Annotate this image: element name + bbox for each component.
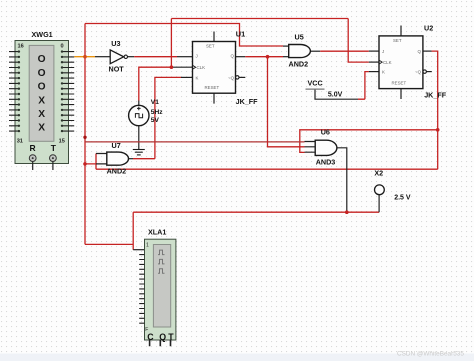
node: junction XWG1 output at bus <box>83 55 87 59</box>
logic analyzer XLA1 <box>145 227 176 346</box>
svg-text:2.5 V: 2.5 V <box>394 195 411 202</box>
logic analyzer XLA1 left pins <box>139 255 144 324</box>
wire: U5 top input stub <box>283 45 289 47</box>
svg-text:16: 16 <box>18 44 24 50</box>
svg-text:R: R <box>30 143 36 153</box>
wire: U1 Q to U5 input 2 <box>236 56 289 58</box>
wire: U2 Q down right side <box>423 51 438 169</box>
svg-text:~Q: ~Q <box>228 75 235 80</box>
wire: XWG1 pin0 to U3 input orange segment <box>74 56 95 58</box>
svg-text:31: 31 <box>17 138 23 144</box>
wire: V1 minus down to ground <box>138 125 140 150</box>
wire: bus to U6 input 1 <box>85 141 305 143</box>
svg-text:U7: U7 <box>112 141 121 150</box>
svg-text:JK_FF: JK_FF <box>424 90 447 99</box>
svg-text:5Hz: 5Hz <box>151 109 163 116</box>
AND gate U5 <box>289 33 311 69</box>
svg-text:5V: 5V <box>151 117 160 124</box>
svg-text:SET: SET <box>393 38 402 43</box>
svg-text:~Q: ~Q <box>415 70 422 75</box>
svg-text:K: K <box>196 75 199 80</box>
wire: U6 output down to probe line <box>337 148 347 212</box>
NOT gate U3 <box>109 39 128 74</box>
svg-text:XLA1: XLA1 <box>148 227 166 236</box>
svg-text:T: T <box>51 143 57 153</box>
wire: U3 output to U1 J <box>128 56 193 58</box>
svg-text:CLK: CLK <box>383 60 392 65</box>
svg-text:X2: X2 <box>374 169 383 178</box>
word generator XWG1 right pins <box>63 52 75 132</box>
node: junction bus to U7 inputs <box>83 162 87 166</box>
wire: U2 Q to U6 input 3 line <box>300 130 438 153</box>
svg-text:X: X <box>38 123 45 134</box>
svg-text:XWG1: XWG1 <box>32 30 53 39</box>
svg-text:NOT: NOT <box>109 65 125 74</box>
wire: bus to U7 inputs <box>85 154 107 170</box>
svg-text:U6: U6 <box>321 128 330 137</box>
svg-text:JK_FF: JK_FF <box>236 97 259 106</box>
svg-text:J: J <box>382 49 384 54</box>
svg-text:Q: Q <box>231 53 235 58</box>
svg-text:15: 15 <box>59 138 65 144</box>
node: junction U6 output at probe line <box>345 210 349 214</box>
word generator XWG1 left pins <box>9 52 19 132</box>
svg-text:5.0V: 5.0V <box>328 91 343 98</box>
svg-text:K: K <box>382 70 385 75</box>
node: junction U2 Q line <box>436 128 440 132</box>
node: junction U1 Q <box>266 55 270 59</box>
svg-text:SET: SET <box>206 43 215 48</box>
wire: bus bottom to XLA1 riser <box>85 212 133 250</box>
svg-text:VCC: VCC <box>308 78 323 87</box>
word generator XWG1 <box>15 30 69 170</box>
wire: vertical from clock tie down to U2 CLK <box>348 19 369 63</box>
svg-text:AND2: AND2 <box>107 167 127 176</box>
svg-text:J: J <box>196 53 198 58</box>
svg-text:C: C <box>147 332 154 342</box>
wire: U7 output up to U1 K <box>155 77 193 158</box>
VCC power symbol <box>306 78 343 98</box>
wire: vertical from clock tie down to U1 CLK <box>170 19 172 68</box>
wire: U5 output to U2 J <box>310 50 379 52</box>
wire: top clock tie line (U1 CLK to U2 CLK) <box>171 18 348 20</box>
svg-text:AND2: AND2 <box>289 59 309 68</box>
svg-text:X: X <box>38 95 45 106</box>
svg-text:Q: Q <box>418 49 422 54</box>
svg-text:O: O <box>38 82 46 93</box>
AND gate U7 <box>107 141 129 175</box>
wire: XLA1 pin 1 stub <box>133 249 144 251</box>
clock voltage source V1 <box>129 99 164 126</box>
svg-text:U2: U2 <box>424 24 433 33</box>
AND gate U6 (3-input) <box>305 128 337 167</box>
wire: XWG1 output vertical bus <box>84 24 86 245</box>
probe X2 <box>374 169 410 202</box>
node: junction on bus (stray dot) <box>83 136 86 139</box>
wire: long feedback line from U2 Q net <box>96 168 438 170</box>
svg-text:1: 1 <box>146 242 149 248</box>
wire: U1 Q down to U6 input 2 <box>268 57 305 147</box>
svg-text:X: X <box>38 109 45 120</box>
ground <box>133 150 145 155</box>
wire: VCC to U2 K <box>315 72 379 100</box>
svg-text:CSDN @WhiteBear535: CSDN @WhiteBear535 <box>397 351 464 358</box>
svg-text:O: O <box>38 68 46 79</box>
svg-text:AND3: AND3 <box>316 157 336 166</box>
wire: probe output line <box>133 211 379 213</box>
wire: U7 output segment <box>129 158 155 160</box>
svg-text:U1: U1 <box>236 30 245 39</box>
JK flip-flop U1 <box>193 30 259 106</box>
wire: X2 probe stub <box>378 195 380 213</box>
node: junction at U1 CLK <box>170 65 174 69</box>
wire: V1 plus to U1 CLK <box>139 67 193 105</box>
svg-text:V1: V1 <box>151 99 159 106</box>
svg-text:U3: U3 <box>111 39 120 48</box>
wire: U2 CLK stub <box>369 61 379 63</box>
svg-text:0: 0 <box>61 44 64 50</box>
svg-text:RESET: RESET <box>392 80 407 85</box>
svg-text:O: O <box>38 54 46 65</box>
wire: XWG1 pin0 to U3 input black segment <box>95 56 110 58</box>
svg-text:RESET: RESET <box>205 85 220 90</box>
wire: XWG1 output bus top line to U5 input feed <box>85 24 283 47</box>
JK flip-flop U2 <box>379 24 447 100</box>
svg-text:CLK: CLK <box>197 65 206 70</box>
svg-text:U5: U5 <box>295 33 304 42</box>
